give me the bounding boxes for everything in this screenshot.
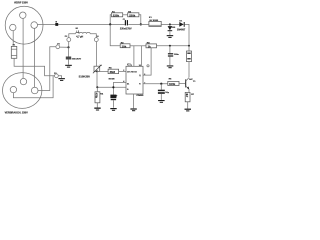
svg-text:1: 1: [131, 65, 132, 67]
wire varistor down to bottom rail: [96, 71, 98, 87]
transistor T1: [185, 78, 196, 90]
capacitor C6: [158, 84, 170, 100]
svg-text:C1: C1: [123, 19, 125, 21]
wire D1 corner down to rail: [185, 24, 189, 45]
tiny circle marker near IC top right: [147, 65, 149, 67]
wire C1 to transformer: [128, 23, 149, 25]
wire emitter to R7: [188, 89, 190, 92]
svg-text:MODE: MODE: [109, 79, 116, 81]
transformer K1: [149, 17, 161, 26]
capacitor C5: [168, 46, 180, 66]
svg-text:CD4060: CD4060: [136, 94, 143, 97]
wire R1 R2 branch: [110, 15, 111, 25]
junction dot varistor/R5: [96, 70, 98, 72]
resistor R8: [146, 43, 157, 49]
wire P1 to junction: [60, 46, 68, 48]
wire plug left pin down to fuse: [12, 31, 14, 47]
capacitor C1: [120, 19, 132, 31]
ground under IC: [130, 108, 136, 111]
IC1: [126, 64, 143, 98]
ground under zener: [167, 35, 174, 38]
wire IC right pin to R6: [143, 83, 168, 85]
wire socket left pin down and right to P2: [13, 76, 53, 98]
wire transformer to D1: [161, 23, 179, 25]
svg-text:470k: 470k: [95, 93, 98, 99]
svg-text:N1: N1: [76, 28, 78, 30]
wire L1 right terminal down: [96, 42, 98, 67]
svg-text:5V6: 5V6: [172, 27, 175, 29]
wire socket right pin to P1: [38, 47, 56, 91]
resistor R6: [168, 78, 179, 86]
varistor R9: [79, 65, 102, 79]
svg-text:A1: A1: [127, 82, 129, 85]
resistor R4: [95, 92, 104, 103]
wire junction to R5: [97, 70, 108, 72]
junction dot relay: [188, 45, 190, 47]
terminal P2: [54, 73, 58, 78]
wire R6 to transistor base: [179, 82, 185, 84]
wire down to IC top pin 2: [141, 46, 143, 67]
svg-text:VERBRAUCH. 230V: VERBRAUCH. 230V: [5, 112, 29, 115]
capacitor C2: [66, 47, 82, 64]
resistor R1: [111, 11, 122, 17]
wire junction up to L1 left terminal: [68, 42, 70, 47]
svg-text:220n/275V: 220n/275V: [120, 28, 132, 31]
junction dot C5: [169, 45, 171, 47]
wire plug top pin down to socket top pin: [22, 18, 24, 78]
node B pad: [55, 22, 58, 26]
svg-text:BV EI305: BV EI305: [150, 20, 159, 22]
relay RE1 coil: [187, 46, 192, 62]
svg-text:4,7 µH: 4,7 µH: [76, 35, 83, 38]
wire plug right pin to node B and main rail: [38, 23, 125, 25]
svg-text:2: 2: [123, 70, 124, 72]
svg-text:100n: 100n: [174, 54, 180, 56]
wire R5 to IC pin: [119, 70, 126, 72]
svg-text:VERIF 230V: VERIF 230V: [14, 2, 28, 5]
svg-text:3M3: 3M3: [110, 70, 116, 74]
resistor R5: [108, 68, 119, 74]
IC pin stub with label: [109, 79, 126, 95]
junction dot C6: [160, 83, 162, 85]
junction dot left: [109, 23, 111, 25]
junction dot zener: [169, 23, 171, 25]
ground under C6: [158, 100, 165, 103]
junction dot: [67, 46, 69, 48]
wire rail to R4 and below: [96, 87, 98, 92]
resistor R7: [185, 92, 195, 101]
wire down to IC top pin 1: [133, 46, 135, 67]
wire plug right pin down to socket right pin: [34, 28, 36, 87]
svg-text:220k: 220k: [129, 13, 136, 17]
resistor R3: [120, 42, 130, 48]
bottom rail to IC: [97, 86, 126, 88]
terminal P1: [56, 44, 61, 49]
wire R8 to right rail: [157, 45, 190, 47]
junction dot C4: [112, 86, 114, 88]
capacitor C4: [110, 95, 118, 108]
ground under C2: [65, 65, 72, 68]
wire R7 to ground: [187, 102, 189, 109]
inductor L1: [69, 31, 97, 38]
resistor R2: [128, 11, 139, 17]
connector X2 output socket: [3, 73, 42, 115]
IC pin numbers: [123, 65, 145, 85]
wire relay to transistor collector: [188, 62, 190, 78]
wire P2 to ground: [58, 76, 61, 78]
ground under R7: [185, 109, 192, 112]
terminal P3: [65, 36, 71, 41]
wire main rail tap down to R3: [110, 24, 120, 45]
fuse F1: [11, 44, 16, 58]
ground under C4: [110, 108, 116, 111]
ground under R4: [94, 108, 100, 111]
svg-text:16: 16: [139, 65, 141, 67]
junction dot bottom rail: [96, 86, 98, 88]
ground near P2: [58, 78, 65, 81]
svg-text:100k: 100k: [169, 82, 176, 86]
svg-text:CTC RS CO: CTC RS CO: [127, 71, 137, 73]
wire fuse down to corner and P2: [14, 58, 54, 76]
IC bottom pin to ground: [133, 94, 135, 108]
svg-text:4k7: 4k7: [185, 93, 188, 98]
svg-text:10k: 10k: [122, 44, 127, 48]
svg-text:100n/63V: 100n/63V: [72, 58, 82, 60]
ground under C5: [167, 65, 174, 68]
svg-text:1N4007: 1N4007: [177, 28, 186, 31]
diode D1: [177, 20, 186, 31]
zener diode D2: [168, 24, 176, 35]
wire IC right pin to R8 bottom: [143, 48, 151, 75]
svg-text:220k: 220k: [113, 13, 120, 17]
connector X1 mains plug: [5, 2, 43, 45]
wire R3 to R8 rail: [130, 45, 146, 47]
svg-text:S10K250: S10K250: [79, 75, 91, 79]
terminal P4: [94, 35, 99, 41]
junction dot right: [140, 23, 142, 25]
svg-text:1k: 1k: [148, 44, 152, 48]
